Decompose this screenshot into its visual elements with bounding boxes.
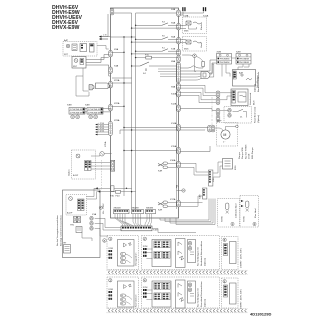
wire to X15A (123, 150, 178, 151)
wires from pair blocks to X21A/X22A (103, 108, 111, 110)
wire bundle from X8A to terminal blocks (180, 60, 216, 71)
connector X17A right edge (177, 201, 181, 207)
connector pill pair before K5M (216, 91, 220, 97)
connector X15A right edge (177, 148, 181, 154)
svg-text:X1A: X1A (92, 213, 97, 216)
wire X15A out to pump area (180, 146, 210, 152)
option box 1 (dashed) (107, 236, 139, 270)
connector X6A right edge (177, 38, 181, 44)
svg-text:X17A: X17A (170, 198, 176, 201)
wire hop from X8A strip to right (180, 66, 203, 68)
inner wire rail along right edge (175, 62, 177, 209)
PCB terminal strip TB3 (146, 210, 156, 214)
main terminal X1M (121, 226, 158, 232)
svg-text:X2M: X2M (217, 52, 222, 54)
connector X12A right edge (177, 105, 181, 111)
svg-text:X4M: X4M (200, 194, 202, 199)
svg-text:Ventil: Ventil (200, 42, 203, 48)
svg-text:X802M: X802M (132, 208, 139, 210)
tank heater box M2S top right (223, 159, 238, 171)
svg-text:X2M: X2M (143, 246, 148, 248)
svg-text:X11A: X11A (203, 15, 209, 18)
svg-text:R5T: R5T (73, 66, 78, 68)
connector pill pair before pump (208, 126, 212, 132)
svg-text:Raumthermostat: Raumthermostat (254, 106, 257, 123)
connector X21A left edge (109, 82, 113, 88)
wires supply box to main area (87, 188, 111, 196)
svg-text:X5YB: X5YB (244, 216, 246, 222)
svg-text:X4A: X4A (171, 8, 176, 11)
svg-text:Pumpe WW: Pumpe WW (242, 146, 244, 159)
terminal block X2M pair A (217, 54, 232, 65)
svg-text:Nur für Anlagen mit: Nur für Anlagen mit (197, 247, 200, 266)
relay contacts K4R pair at right edge (158, 162, 177, 173)
svg-text:X2A: X2A (114, 48, 119, 51)
relay contact K3 with wire to X5A (131, 22, 179, 29)
svg-text:Normaltarif-Netzanschluss: Normaltarif-Netzanschluss (200, 280, 203, 307)
svg-text:t 6/16: t 6/16 (99, 129, 105, 132)
svg-text:X2M: X2M (213, 177, 215, 182)
svg-text:F3U: F3U (110, 196, 115, 198)
svg-text:A4P: A4P (64, 39, 69, 42)
connector X10A right edge (177, 91, 181, 97)
connector X25A left edge (rect) (104, 141, 115, 171)
wires X2M strip to M2S (213, 162, 223, 173)
mains feed arrows (99, 34, 108, 40)
thermostat option box (dashed) (224, 106, 260, 123)
connector X22A left edge (109, 105, 113, 111)
wire N from top terminal down (179, 12, 184, 15)
connector X3A left edge (109, 67, 113, 73)
svg-text:X9A: X9A (171, 86, 176, 89)
terminal block X1A on top edge (203, 7, 206, 11)
svg-text:M2S: M2S (184, 49, 189, 51)
svg-text:M2S: M2S (235, 165, 237, 170)
wire X19A to bus (114, 12, 132, 14)
svg-text:A2P: A2P (239, 72, 244, 75)
jumper option box B (dashed) (240, 196, 259, 228)
svg-text:X22A: X22A (114, 102, 120, 105)
wire X21A to bus junction (112, 82, 132, 84)
connector X9A right edge (177, 84, 181, 90)
wires main box bottom to right strips (160, 199, 215, 225)
svg-text:X25A: X25A (104, 141, 107, 147)
relay contacts K2R pair at right edge lower (158, 201, 177, 212)
svg-text:X2M: X2M (108, 289, 113, 291)
option box 4b appendix (dashed) (222, 278, 243, 309)
connector pills inside supply box (90, 217, 93, 221)
connector X5A right edge (177, 24, 181, 30)
wire X5A to M3S (180, 25, 186, 28)
connector X7A right edge (177, 49, 181, 55)
svg-text:Benötigt zweiten Netzanschluss: Benötigt zweiten Netzanschluss (60, 214, 63, 246)
receiver option box A4P (dashed) (63, 39, 97, 56)
svg-text:Nur bei Vorzugsstromanschluss: Nur bei Vorzugsstromanschluss (56, 214, 59, 246)
svg-text:X5A: X5A (171, 22, 176, 25)
wire pair to X14A (120, 127, 179, 134)
svg-text:L N: L N (103, 34, 107, 36)
svg-text:Vorzugsstrom: Vorzugsstrom (135, 252, 138, 266)
dash-dot option leader (211, 97, 213, 125)
main PCB A1P outline (111, 8, 179, 218)
wire between pair blocks (232, 57, 237, 59)
svg-text:Normalstrom: Normalstrom (135, 294, 138, 307)
relay contact K5 with wire to X6A (131, 36, 179, 43)
svg-text:X6A: X6A (171, 36, 176, 39)
svg-text:K4R: K4R (158, 171, 163, 173)
earth wire left of PCB (107, 14, 109, 37)
svg-text:X803M: X803M (146, 208, 153, 210)
terminal block X5M pair B (left) (87, 108, 103, 119)
connector X8A strip right edge (177, 63, 181, 83)
svg-text:K2R: K2R (158, 210, 163, 212)
wires from R5T to X2A/X3A (86, 55, 109, 60)
pump M1P (motor circle) (217, 121, 239, 147)
svg-text:X15A: X15A (171, 145, 177, 148)
option box 2 (dashed) (142, 236, 220, 270)
bus line 2 (vertical) (135, 13, 137, 210)
svg-text:X1M: X1M (153, 230, 158, 232)
connector pill pair before thermostat (216, 109, 220, 115)
svg-text:X4M: X4M (85, 105, 90, 107)
relay contact K4 lower (131, 62, 177, 75)
inline plug pair X21A feed (89, 83, 111, 90)
wires into X8A strip pins (158, 69, 177, 77)
svg-text:1N~, 230V: 1N~, 230V (103, 203, 105, 214)
wire L from top terminal to bus (136, 12, 204, 13)
user interface box A2P (233, 70, 256, 87)
fuse F3U on supply feed (110, 186, 115, 198)
svg-text:Mischer: Mischer (200, 22, 203, 30)
sensor box R5T (72, 57, 86, 69)
svg-text:(Option): (Option) (204, 299, 207, 307)
bus line 1 (vertical) (131, 13, 133, 210)
relay contact K1 with wire to X7A (131, 48, 179, 55)
svg-text:X23A: X23A (114, 119, 120, 122)
transformer TR1 (70, 217, 81, 227)
svg-text:M1P: M1P (217, 121, 222, 123)
svg-text:1/N/PE~ 230V, 50Hz: 1/N/PE~ 230V, 50Hz (241, 248, 243, 268)
svg-text:X801M: X801M (114, 208, 121, 210)
fuse F1U (135, 54, 179, 59)
dashed leader along left edge (101, 160, 103, 190)
svg-text:Nur für Anlagen mit: Nur für Anlagen mit (197, 288, 200, 307)
svg-text:Lötbrücke Ausf.: Lötbrücke Ausf. (235, 203, 238, 218)
wires pill pair to K5M (220, 93, 232, 100)
svg-text:(Option): (Option) (204, 258, 207, 266)
fan-out wires TB to X1M (115, 214, 152, 226)
connector X19A top left corner (110, 9, 114, 15)
connector X23A strip left edge (109, 122, 113, 136)
svg-text:X2M: X2M (236, 52, 241, 54)
option box M2S (dashed) (183, 37, 207, 52)
option box 2b appendix (dashed) (222, 237, 243, 270)
svg-text:A11P: A11P (73, 174, 79, 177)
connector X14A right edge (177, 125, 181, 131)
vertical terminal strip X4M (200, 188, 207, 199)
svg-text:WW-Pumpe: WW-Pumpe (252, 146, 254, 159)
svg-text:X2M: X2M (108, 248, 113, 250)
wire X22A to bus (112, 105, 124, 107)
terminal block X2M pair B (236, 54, 251, 65)
svg-text:X2M: X2M (143, 287, 148, 289)
svg-text:Nur bei *KHBX: Nur bei *KHBX (244, 144, 247, 159)
wire X12A to thermostat box (180, 109, 216, 111)
wire X14A to M1P (180, 127, 207, 129)
svg-text:X12A: X12A (171, 103, 177, 106)
svg-text:F4U: F4U (116, 196, 121, 198)
connector X4A right edge (177, 10, 181, 16)
breaker box RT (64, 245, 71, 254)
svg-text:4D130129D: 4D130129D (250, 312, 271, 317)
terminal clamp strip row mid (107, 270, 248, 274)
inline plug connector (201, 64, 214, 79)
relay K12 small box (76, 227, 82, 233)
svg-text:X3A: X3A (114, 65, 119, 68)
wires X1M going right (152, 229, 196, 233)
lamp H1P (182, 54, 196, 72)
svg-text:BUH: BUH (254, 100, 256, 105)
flow switch circle S1L (100, 152, 104, 156)
loop wire R5T return (76, 68, 89, 96)
svg-text:A12P: A12P (67, 212, 73, 215)
svg-text:M3S: M3S (184, 31, 189, 33)
svg-text:X3M: X3M (67, 105, 72, 107)
heater contactor box K5M (231, 89, 256, 106)
connector X2A left edge (109, 51, 113, 57)
svg-text:X21A: X21A (114, 79, 120, 82)
inner dashed receiver box (66, 195, 87, 216)
flow sensor option box (dashed) (68, 150, 96, 179)
wire X6A to M2S (180, 39, 186, 42)
svg-text:DHVX-E9W: DHVX-E9W (52, 25, 79, 31)
supply box outline (63, 190, 101, 258)
terminal clamp strip row bottom (107, 309, 248, 313)
option box 3 (dashed) (107, 277, 139, 308)
svg-text:Heizelement: Heizelement (249, 92, 252, 105)
svg-text:F1U: F1U (145, 54, 150, 56)
fuse F4U on supply feed (116, 190, 121, 197)
option box 4 (dashed) (142, 277, 220, 308)
svg-text:X10A: X10A (171, 93, 177, 96)
earth stub with circle (177, 185, 186, 192)
svg-text:3/N/PE~ 400V, 50Hz: 3/N/PE~ 400V, 50Hz (241, 289, 243, 309)
connector X7B right edge (177, 56, 181, 62)
jumper option box A (dashed) (218, 199, 240, 228)
wires from block B down to A2P (238, 64, 243, 70)
connector reference labels (64, 8, 241, 245)
model list header (52, 5, 83, 31)
svg-text:Option: Option (68, 169, 71, 176)
svg-text:Schaltkasten: Schaltkasten (256, 75, 259, 88)
svg-text:X8A: X8A (171, 60, 176, 63)
svg-text:Pumpe: Pumpe (239, 151, 241, 159)
vertical terminal strip X3M (209, 170, 216, 186)
resistor R1T (196, 56, 204, 66)
PCB terminal strip TB2 (132, 210, 144, 214)
svg-text:(Option): (Option) (257, 115, 260, 123)
wires X16A/X17A to strips (180, 163, 208, 206)
PCB terminal strip TB1 (114, 210, 130, 214)
svg-text:X16A: X16A (170, 159, 176, 162)
circled a marker (103, 239, 107, 243)
wire X2A to bus (112, 51, 124, 53)
svg-text:Max. Ausf.: Max. Ausf. (254, 207, 257, 218)
bus line 3 (vertical lower) (123, 37, 125, 196)
option box M3S (dashed) (183, 17, 207, 34)
svg-text:X6YB: X6YB (222, 216, 224, 222)
wires X9A to pill pair (180, 85, 216, 93)
svg-text:2X1E: 2X1E (249, 153, 251, 159)
connector X16A right edge (177, 162, 181, 168)
terminal block X5M pair A (left) (69, 108, 85, 119)
svg-text:M: M (223, 133, 226, 137)
svg-text:X14A: X14A (171, 122, 177, 125)
svg-text:X7A: X7A (171, 47, 176, 50)
svg-text:Niedertarif-Netzanschluss: Niedertarif-Netzanschluss (200, 240, 203, 266)
svg-text:R2T: R2T (64, 54, 69, 56)
svg-text:X13A: X13A (183, 15, 189, 18)
terminal block X11A on top edge (182, 7, 185, 11)
wire tail labels into X23A strip (95, 122, 109, 136)
wires from flow box to X25A (91, 162, 111, 164)
